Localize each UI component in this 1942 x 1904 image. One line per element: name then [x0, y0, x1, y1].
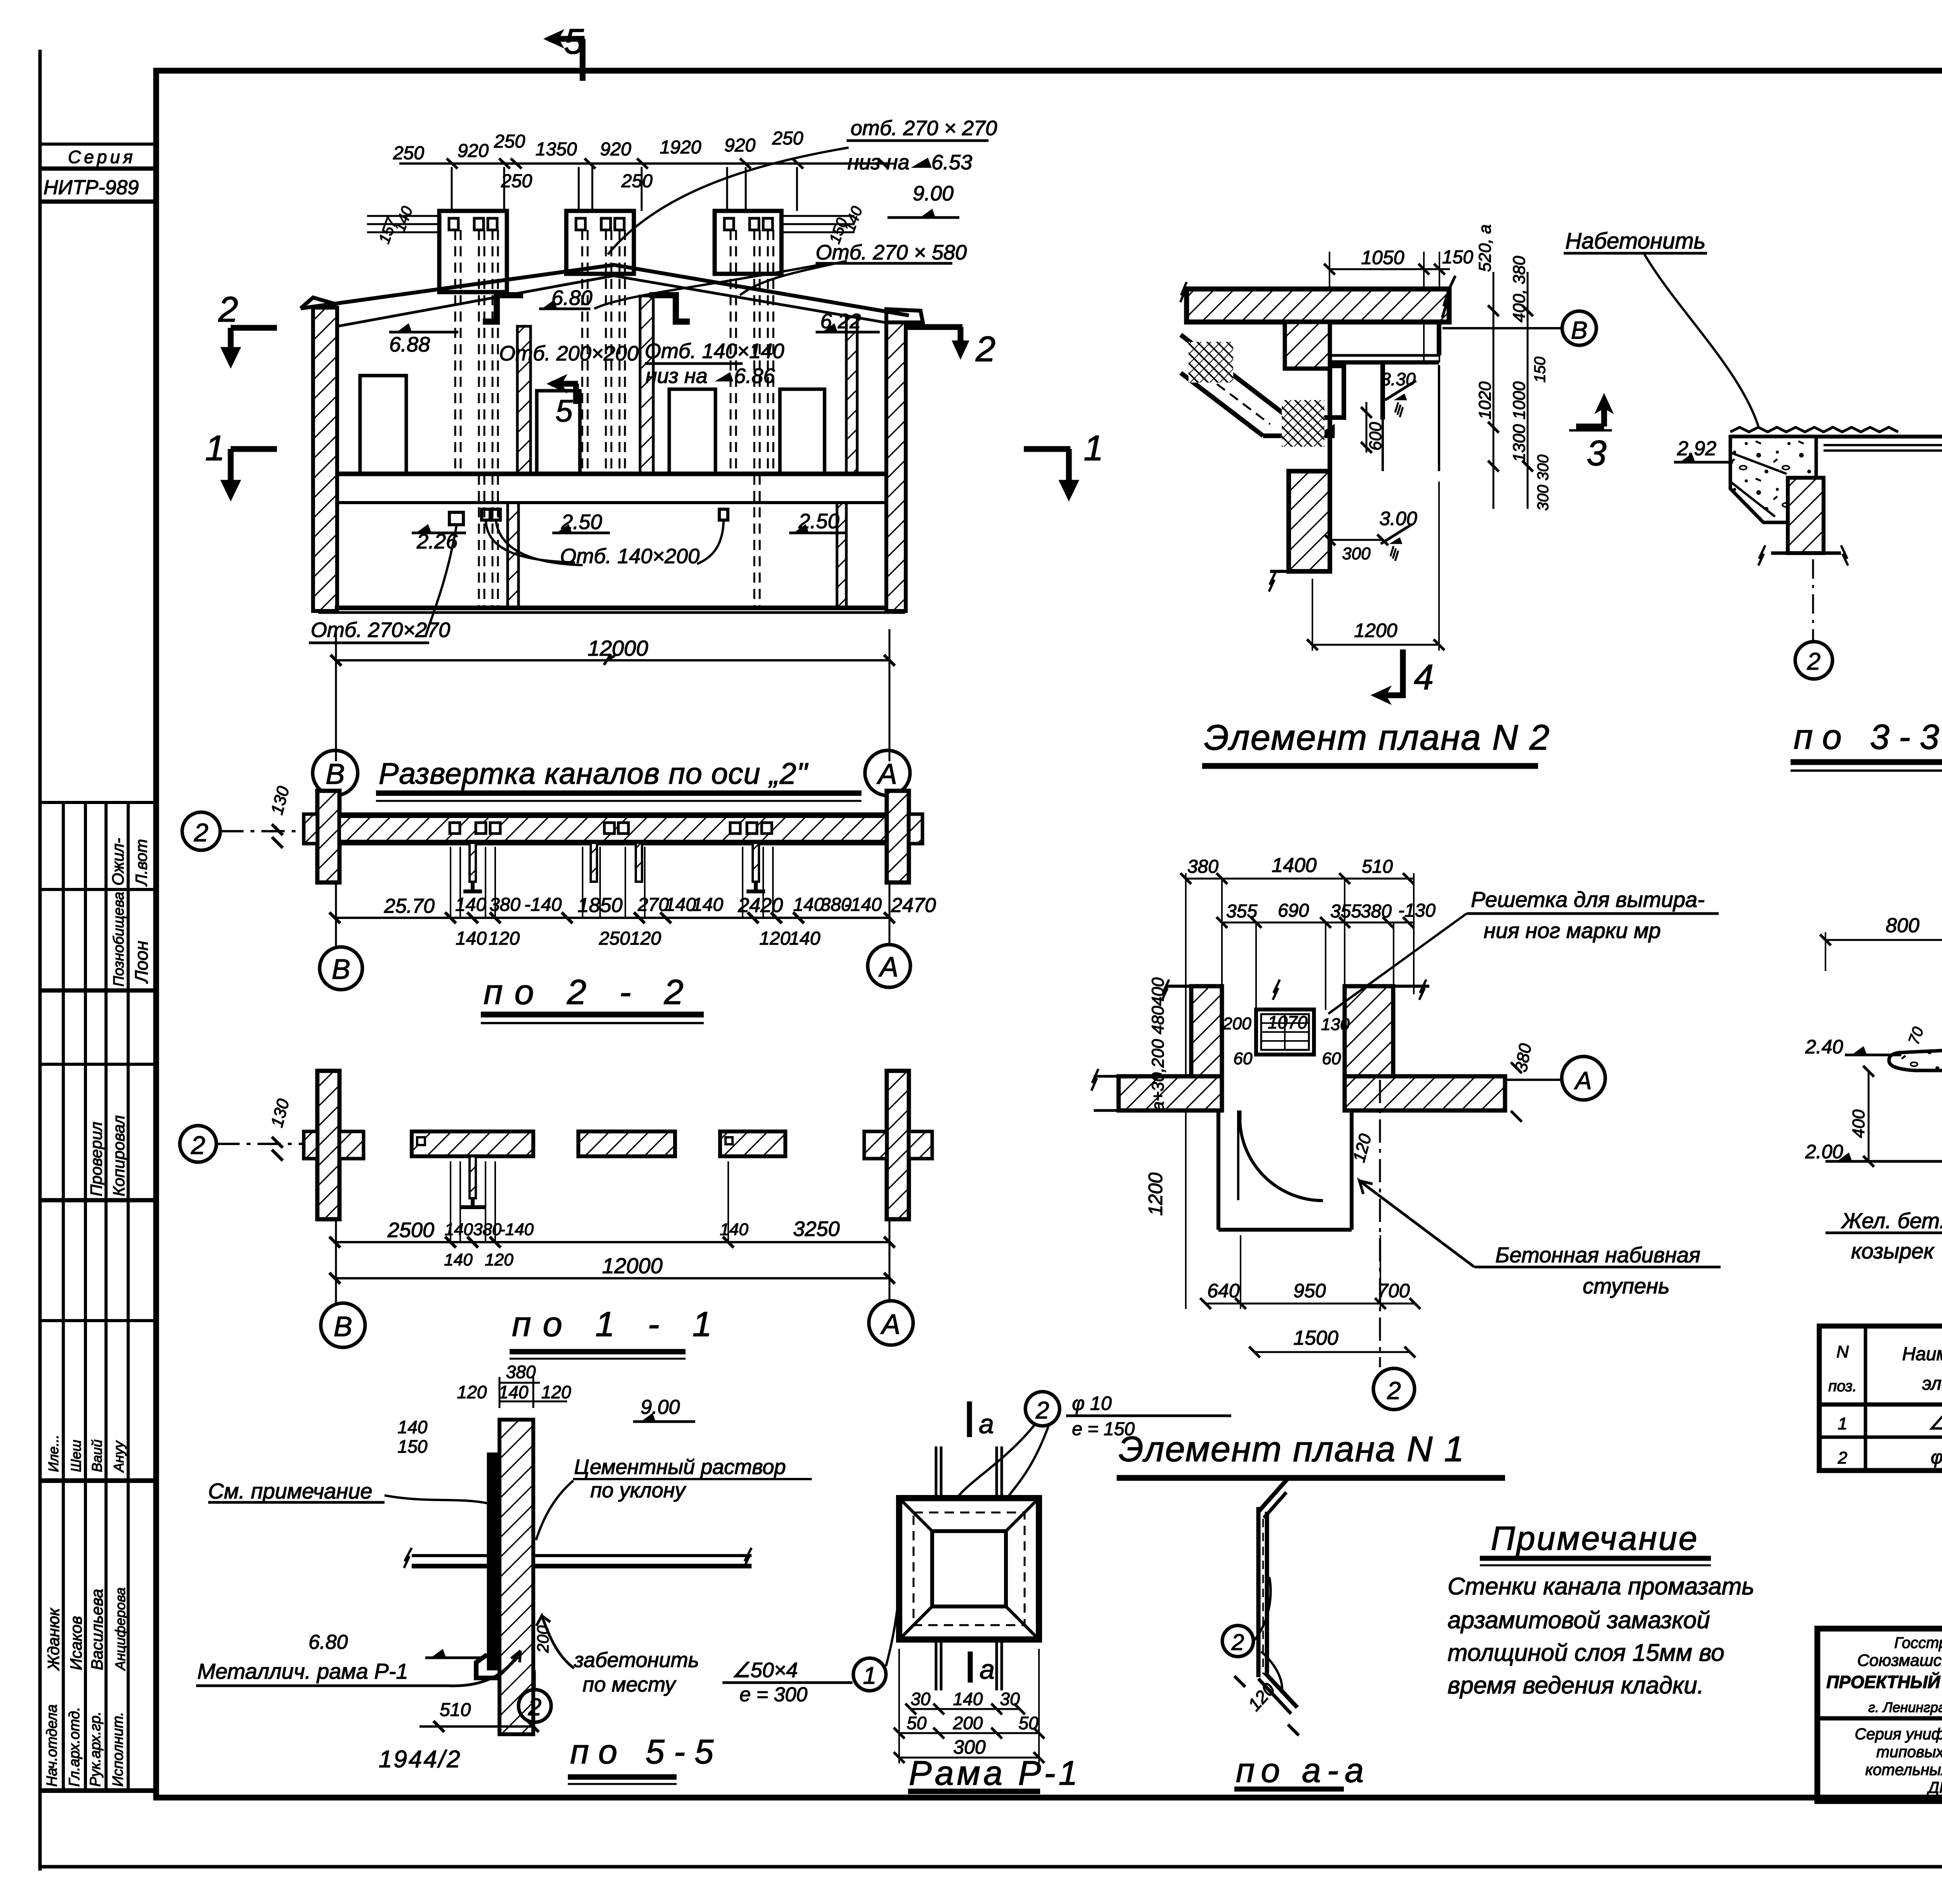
svg-text:60: 60 — [1322, 1049, 1341, 1068]
svg-text:250: 250 — [772, 128, 803, 149]
svg-text:отб. 270 × 270: отб. 270 × 270 — [851, 117, 997, 140]
svg-text:400: 400 — [1148, 977, 1168, 1006]
svg-text:1350: 1350 — [536, 139, 577, 160]
svg-text:9.00: 9.00 — [640, 1396, 680, 1418]
svg-text:-140: -140 — [844, 895, 882, 915]
svg-text:400: 400 — [1849, 1109, 1868, 1138]
svg-text:2.26: 2.26 — [416, 530, 458, 553]
svg-text:130: 130 — [1321, 1015, 1350, 1034]
svg-text:2420: 2420 — [738, 894, 783, 917]
svg-text:120: 120 — [485, 1250, 513, 1269]
svg-text:2: 2 — [218, 290, 238, 329]
svg-text:∠50×4: ∠50×4 — [1928, 1413, 1942, 1434]
svg-text:520, а: 520, а — [1476, 225, 1495, 272]
svg-text:140: 140 — [953, 1689, 983, 1709]
svg-text:920: 920 — [600, 139, 631, 160]
svg-text:a: a — [979, 1409, 994, 1439]
svg-text:5: 5 — [564, 22, 584, 61]
svg-text:Элемент плана N 1: Элемент плана N 1 — [1119, 1429, 1465, 1469]
svg-text:120: 120 — [457, 1382, 487, 1402]
svg-text:Серия: Серия — [68, 147, 136, 167]
svg-text:250: 250 — [393, 143, 424, 164]
svg-text:1: 1 — [1838, 1414, 1847, 1433]
svg-text:Лоон: Лоон — [131, 941, 151, 984]
svg-text:5: 5 — [555, 393, 573, 428]
svg-text:50: 50 — [907, 1713, 927, 1733]
svg-text:Отб. 270×270: Отб. 270×270 — [311, 618, 450, 642]
svg-text:В: В — [332, 954, 350, 985]
svg-text:В: В — [325, 758, 345, 790]
svg-text:3.00: 3.00 — [1379, 508, 1417, 529]
svg-text:Решетка для вытира-: Решетка для вытира- — [1471, 887, 1705, 912]
svg-text:400, 380: 400, 380 — [1510, 256, 1529, 322]
svg-text:низ на: низ на — [847, 151, 910, 174]
svg-text:380: 380 — [1361, 901, 1392, 922]
svg-text:2: 2 — [975, 329, 995, 369]
svg-text:380: 380 — [1187, 856, 1218, 877]
svg-text:арзамитовой замазкой: арзамитовой замазкой — [1448, 1607, 1710, 1634]
svg-text:В: В — [1571, 316, 1588, 344]
svg-text:140: 140 — [456, 928, 487, 949]
svg-text:700: 700 — [1377, 1280, 1410, 1302]
svg-text:Шеш: Шеш — [68, 1440, 84, 1472]
svg-text:250: 250 — [599, 928, 630, 949]
svg-text:120: 120 — [489, 928, 520, 949]
svg-text:Исаков: Исаков — [67, 1616, 85, 1670]
svg-text:920: 920 — [724, 135, 755, 156]
svg-text:Серия унифицированных: Серия унифицированных — [1855, 1725, 1942, 1743]
svg-text:1850: 1850 — [578, 894, 623, 917]
svg-text:140: 140 — [720, 1220, 748, 1239]
svg-text:время ведения кладки.: время ведения кладки. — [1448, 1672, 1704, 1699]
svg-text:Л.вот: Л.вот — [132, 839, 150, 887]
svg-text:9.00: 9.00 — [913, 182, 954, 205]
svg-text:140: 140 — [789, 928, 820, 949]
svg-text:6.53: 6.53 — [931, 151, 972, 174]
svg-text:380: 380 — [489, 895, 520, 915]
svg-text:Васильева: Васильева — [88, 1589, 106, 1670]
svg-text:120: 120 — [759, 928, 790, 949]
svg-text:150: 150 — [1442, 247, 1473, 268]
svg-text:Жданюк: Жданюк — [44, 1607, 63, 1671]
svg-text:4: 4 — [1414, 658, 1434, 697]
svg-text:3.30: 3.30 — [1381, 369, 1416, 389]
svg-text:140: 140 — [444, 1250, 473, 1269]
svg-text:элемента: элемента — [1922, 1373, 1942, 1394]
svg-text:800: 800 — [1886, 914, 1919, 937]
svg-text:Отб. 140×140: Отб. 140×140 — [645, 339, 784, 363]
svg-text:120: 120 — [630, 928, 661, 949]
svg-text:Отб. 270 × 580: Отб. 270 × 580 — [816, 241, 967, 264]
svg-text:Союзмашстройпроект: Союзмашстройпроект — [1857, 1651, 1942, 1670]
svg-text:1200: 1200 — [1354, 620, 1397, 641]
svg-text:толщиной слоя 15мм во: толщиной слоя 15мм во — [1448, 1639, 1724, 1666]
svg-text:Стенки канала промазать: Стенки канала промазать — [1448, 1573, 1754, 1600]
svg-text:270: 270 — [637, 895, 669, 915]
svg-text:а+30,200 480: а+30,200 480 — [1148, 1006, 1168, 1111]
svg-text:Госстрой СССР: Госстрой СССР — [1894, 1634, 1942, 1652]
svg-text:140: 140 — [398, 1417, 428, 1437]
svg-text:355: 355 — [1226, 901, 1257, 922]
svg-text:поз.: поз. — [1828, 1378, 1857, 1395]
svg-text:30: 30 — [910, 1689, 931, 1709]
svg-text:А: А — [1574, 1067, 1592, 1095]
svg-text:510: 510 — [440, 1700, 471, 1720]
svg-text:Набетонить: Набетонить — [1565, 228, 1705, 254]
svg-text:1050: 1050 — [1361, 247, 1404, 268]
svg-text:Проверил: Проверил — [87, 1122, 105, 1196]
svg-text:6.88: 6.88 — [389, 333, 430, 356]
svg-text:2: 2 — [1838, 1448, 1847, 1467]
svg-text:по а-а: по а-а — [1236, 1751, 1370, 1789]
svg-text:по 3-3: по 3-3 — [1794, 718, 1942, 757]
svg-text:по 1 - 1: по 1 - 1 — [512, 1305, 724, 1344]
svg-text:-130: -130 — [1398, 900, 1436, 921]
svg-text:1020: 1020 — [1476, 381, 1495, 419]
svg-text:380: 380 — [506, 1362, 536, 1382]
svg-text:Гл.арх.отд.: Гл.арх.отд. — [66, 1707, 83, 1787]
svg-text:200: 200 — [1222, 1014, 1251, 1033]
svg-text:ступень: ступень — [1583, 1274, 1670, 1298]
svg-text:2.50: 2.50 — [798, 510, 839, 533]
svg-text:2: 2 — [1035, 1397, 1049, 1424]
svg-text:См. примечание: См. примечание — [208, 1479, 372, 1503]
svg-text:Копировал: Копировал — [110, 1115, 128, 1196]
svg-text:3250: 3250 — [793, 1217, 840, 1241]
svg-text:Цементный раствор: Цементный раствор — [574, 1455, 786, 1479]
svg-text:низ на: низ на — [646, 364, 708, 388]
svg-text:2.50: 2.50 — [561, 510, 602, 534]
svg-text:140: 140 — [692, 895, 723, 915]
svg-text:2470: 2470 — [891, 894, 936, 917]
svg-text:НИТР-989: НИТР-989 — [44, 176, 139, 199]
svg-text:1920: 1920 — [660, 137, 701, 158]
svg-text:Металлич. рама Р-1: Металлич. рама Р-1 — [197, 1659, 408, 1683]
svg-text:2: 2 — [528, 1694, 541, 1721]
svg-text:по 5-5: по 5-5 — [570, 1732, 723, 1771]
svg-text:Отб. 140×200: Отб. 140×200 — [560, 545, 700, 568]
svg-text:150: 150 — [398, 1436, 428, 1457]
svg-text:Бетонная набивная: Бетонная набивная — [1495, 1243, 1700, 1267]
svg-text:950: 950 — [1293, 1280, 1326, 1302]
svg-text:1300 1000: 1300 1000 — [1510, 381, 1529, 462]
svg-text:Анциферова: Анциферова — [112, 1587, 128, 1671]
svg-text:140: 140 — [455, 895, 486, 915]
svg-text:140: 140 — [793, 895, 824, 915]
svg-text:300 300: 300 300 — [1535, 454, 1552, 511]
svg-text:920: 920 — [458, 141, 489, 161]
svg-text:Познобищева: Познобищева — [111, 892, 127, 987]
svg-text:А: А — [880, 1309, 900, 1340]
svg-text:a: a — [980, 1654, 995, 1685]
svg-text:-140: -140 — [524, 895, 562, 915]
svg-text:г. Ленинград: г. Ленинград — [1868, 1699, 1942, 1715]
svg-text:по уклону: по уклону — [590, 1479, 686, 1502]
svg-text:Рук.арх.гр.: Рук.арх.гр. — [87, 1711, 104, 1787]
svg-text:300: 300 — [1342, 544, 1371, 563]
svg-text:690: 690 — [1278, 900, 1309, 921]
svg-text:Иле...: Иле... — [45, 1435, 61, 1472]
svg-text:60: 60 — [1234, 1049, 1253, 1068]
svg-text:250: 250 — [621, 171, 653, 191]
svg-text:250: 250 — [494, 131, 525, 152]
svg-text:Наименование: Наименование — [1902, 1344, 1942, 1364]
svg-text:30: 30 — [1000, 1689, 1020, 1709]
svg-text:250: 250 — [501, 171, 532, 191]
svg-text:200: 200 — [534, 1625, 552, 1653]
svg-text:1500: 1500 — [1293, 1327, 1338, 1349]
svg-text:2.92: 2.92 — [1677, 437, 1716, 460]
svg-text:e = 300: e = 300 — [740, 1683, 807, 1706]
svg-text:Нач.отдела: Нач.отдела — [44, 1704, 60, 1787]
svg-text:6.86: 6.86 — [734, 364, 775, 388]
svg-text:3: 3 — [1587, 433, 1606, 473]
svg-text:140380: 140380 — [445, 1220, 502, 1239]
svg-text:e = 150: e = 150 — [1072, 1419, 1135, 1439]
svg-text:Отб. 200×200: Отб. 200×200 — [499, 342, 639, 365]
svg-text:ДКВР: ДКВР — [1926, 1779, 1942, 1796]
svg-text:2: 2 — [191, 1131, 205, 1159]
svg-text:355: 355 — [1330, 901, 1361, 922]
svg-text:Ануу: Ануу — [111, 1440, 127, 1473]
svg-text:Жел. бет.: Жел. бет. — [1841, 1208, 1942, 1233]
svg-text:по 2 - 2: по 2 - 2 — [484, 973, 695, 1012]
svg-text:козырек: козырек — [1851, 1239, 1935, 1263]
svg-text:по месту: по месту — [583, 1673, 677, 1696]
svg-text:Ожил-: Ожил- — [109, 838, 127, 886]
svg-text:1070: 1070 — [1268, 1012, 1308, 1032]
svg-text:1: 1 — [863, 1662, 876, 1689]
svg-text:510: 510 — [1362, 856, 1393, 877]
svg-text:6.80: 6.80 — [308, 1631, 348, 1653]
svg-text:ПРОЕКТНЫЙ ИНСТИТУТ №1: ПРОЕКТНЫЙ ИНСТИТУТ №1 — [1826, 1672, 1942, 1692]
svg-text:А: А — [876, 758, 897, 790]
svg-text:Элемент плана N 2: Элемент плана N 2 — [1204, 718, 1550, 757]
svg-text:2500: 2500 — [387, 1218, 434, 1242]
svg-text:200: 200 — [953, 1713, 983, 1733]
svg-text:Примечание: Примечание — [1491, 1520, 1698, 1557]
svg-text:1944/2: 1944/2 — [379, 1746, 462, 1773]
svg-text:типовых проектов: типовых проектов — [1876, 1743, 1942, 1761]
svg-text:150: 150 — [1531, 357, 1549, 383]
svg-text:2.00: 2.00 — [1805, 1141, 1843, 1163]
svg-text:140: 140 — [665, 895, 696, 915]
svg-text:Рама Р-1: Рама Р-1 — [909, 1754, 1081, 1792]
svg-text:1400: 1400 — [1272, 854, 1317, 877]
svg-text:котельных с котлами: котельных с котлами — [1865, 1761, 1942, 1779]
svg-text:ния ног марки мр: ния ног марки мр — [1484, 918, 1661, 943]
svg-text:6.22: 6.22 — [820, 310, 861, 333]
svg-text:-140: -140 — [499, 1220, 534, 1239]
svg-text:∠50×4: ∠50×4 — [732, 1659, 798, 1682]
svg-text:2: 2 — [194, 818, 209, 847]
svg-text:25.70: 25.70 — [384, 895, 435, 917]
svg-text:А: А — [878, 952, 898, 983]
svg-text:640: 640 — [1207, 1280, 1240, 1302]
svg-text:1: 1 — [205, 428, 225, 468]
svg-text:Ваий: Ваий — [89, 1439, 105, 1472]
svg-text:1200: 1200 — [1145, 1173, 1166, 1216]
svg-text:φ 10: φ 10 — [1072, 1392, 1112, 1414]
svg-text:120: 120 — [541, 1382, 571, 1402]
svg-text:Развертка каналов по оси „2: Развертка каналов по оси „2" — [379, 757, 809, 790]
svg-text:12000: 12000 — [588, 636, 648, 660]
svg-text:1: 1 — [1084, 428, 1103, 468]
svg-text:600: 600 — [1366, 422, 1385, 451]
svg-text:6.80: 6.80 — [552, 286, 592, 310]
svg-text:140: 140 — [499, 1382, 529, 1402]
svg-text:В: В — [334, 1311, 352, 1342]
svg-text:2: 2 — [1807, 648, 1820, 675]
svg-text:забетонить: забетонить — [574, 1648, 699, 1672]
svg-text:50: 50 — [1018, 1713, 1039, 1733]
svg-text:Исполнит.: Исполнит. — [110, 1712, 126, 1787]
svg-text:φ 10: φ 10 — [1931, 1447, 1942, 1468]
svg-text:2: 2 — [1387, 1377, 1401, 1405]
svg-text:2.40: 2.40 — [1805, 1036, 1843, 1058]
svg-text:N: N — [1836, 1342, 1849, 1361]
svg-text:2: 2 — [1231, 1630, 1244, 1655]
svg-text:12000: 12000 — [602, 1253, 663, 1278]
